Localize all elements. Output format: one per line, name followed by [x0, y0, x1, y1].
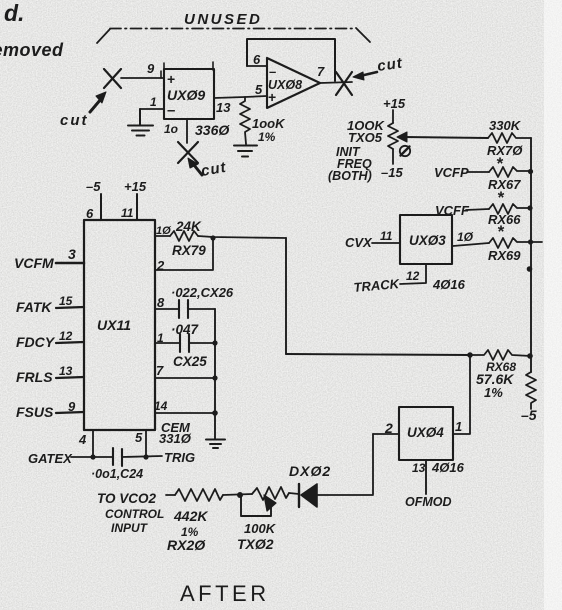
- wire FRLS input: [56, 377, 84, 378]
- capacitor C24 .001: [113, 448, 122, 466]
- node 442K/TX02 wiper: [237, 492, 243, 498]
- wire UX09 output pin 13 to UX08 pin 5: [214, 96, 267, 98]
- svg-text:TO VCO2: TO VCO2: [97, 491, 157, 506]
- svg-text:331Ø: 331Ø: [159, 431, 192, 446]
- svg-text:OFMOD: OFMOD: [405, 495, 452, 509]
- svg-text:VCFM: VCFM: [14, 255, 54, 271]
- node RX67/bus: [528, 169, 533, 174]
- svg-text:–5: –5: [86, 179, 101, 194]
- wire to UX09 pin 9: [121, 77, 164, 79]
- wire UX11 pin 10 to 24K: [155, 235, 170, 237]
- wire TX02 to diode: [289, 493, 299, 494]
- svg-text:4Ø16: 4Ø16: [431, 460, 465, 475]
- resistor RX66: [489, 204, 531, 214]
- resistor 24K RX79: [170, 231, 198, 241]
- TX05 wiper arrow: [397, 132, 488, 142]
- resistor RX67: [489, 167, 531, 177]
- trimmer TX05 100K: [388, 123, 398, 149]
- wire UX11 pin 14: [155, 412, 215, 414]
- svg-text:1o: 1o: [164, 122, 178, 136]
- svg-text:UNUSED: UNUSED: [184, 11, 262, 28]
- wire route 24K node down: [285, 238, 287, 354]
- wire FATK input: [56, 307, 84, 308]
- right white margin strip: [544, 0, 562, 610]
- wire C24 to TRIG: [122, 456, 162, 457]
- node pin5/TRIG: [143, 454, 148, 459]
- svg-text:2: 2: [156, 258, 165, 273]
- svg-text:FSUS: FSUS: [16, 404, 54, 420]
- wire UX08 output pin 7: [320, 82, 352, 83]
- svg-text:FRLS: FRLS: [16, 369, 53, 385]
- diode DX02: [299, 484, 317, 507]
- svg-text:9: 9: [147, 61, 155, 76]
- wire UX04 pin 2: [373, 433, 399, 435]
- svg-text:cut: cut: [376, 55, 404, 75]
- resistor on bus to -5: [526, 372, 536, 409]
- svg-text:CONTROL: CONTROL: [105, 507, 164, 521]
- svg-text:1%: 1%: [258, 130, 276, 144]
- vertical wire caps to ground: [214, 309, 216, 439]
- node RX69/bus: [528, 239, 533, 244]
- node 24K/pin2 junction: [210, 235, 215, 240]
- svg-text:RX7Ø: RX7Ø: [487, 143, 523, 158]
- svg-text:RX2Ø: RX2Ø: [167, 537, 206, 553]
- svg-text:1Ø: 1Ø: [156, 225, 171, 237]
- svg-text:d.: d.: [4, 0, 24, 26]
- svg-text:VCFF: VCFF: [435, 203, 470, 218]
- svg-text:UX11: UX11: [97, 317, 131, 333]
- svg-text:UXØ9: UXØ9: [167, 87, 205, 103]
- UX11 pin 11 stub (+15): [136, 194, 138, 220]
- svg-text:5: 5: [255, 82, 263, 97]
- wire UX04 pin 2 down to diode row: [372, 434, 374, 494]
- ground below 100K resistor: [234, 146, 257, 157]
- wire UX11 pin 8 to CX26: [155, 308, 179, 310]
- wire FSUS input: [56, 412, 84, 413]
- wire UX03 pin 10 to RX69: [453, 243, 489, 246]
- TX02 wiper arrow and return wire: [241, 495, 276, 516]
- svg-text:AFTER: AFTER: [180, 581, 270, 606]
- svg-text:12: 12: [59, 329, 73, 343]
- unused-section bracket: [97, 28, 370, 43]
- svg-text:cut: cut: [60, 112, 89, 129]
- svg-text:9: 9: [68, 399, 76, 414]
- svg-text:RX79: RX79: [172, 243, 206, 258]
- svg-text:removed: removed: [0, 40, 64, 60]
- IC UX03 box: [400, 215, 452, 264]
- node on bus below RX69: [527, 266, 533, 272]
- svg-text:–: –: [269, 64, 276, 79]
- resistor RX69: [489, 238, 542, 248]
- UX04 pin 13 stub: [425, 460, 427, 494]
- TX05 screw adjust symbol: [400, 146, 410, 156]
- wire UX11 pin 2 loop: [155, 238, 213, 270]
- svg-text:4Ø16: 4Ø16: [432, 277, 466, 292]
- svg-text:442K: 442K: [173, 508, 208, 524]
- wire FDCY input: [56, 342, 84, 343]
- op-amp UX08 triangle: [267, 58, 320, 108]
- svg-text:12: 12: [406, 269, 420, 283]
- svg-text:UXØ4: UXØ4: [407, 425, 444, 440]
- svg-text:·022,CX26: ·022,CX26: [171, 285, 234, 300]
- svg-text:1Ø: 1Ø: [457, 230, 474, 244]
- cut X mark at UX09 pin 10: [178, 142, 198, 163]
- ground below caps column: [206, 440, 225, 449]
- svg-text:TRIG: TRIG: [164, 450, 195, 465]
- svg-text:CVX: CVX: [345, 235, 373, 250]
- svg-text:1ooK: 1ooK: [252, 116, 286, 131]
- resistor 442K RX20: [175, 489, 223, 501]
- svg-text:7: 7: [317, 64, 325, 79]
- svg-text:8: 8: [157, 295, 165, 310]
- UX08 feedback wire: [247, 39, 335, 81]
- svg-text:7: 7: [156, 363, 164, 378]
- wire UX11 pin 1 to CX25: [155, 342, 180, 344]
- svg-text:RX67: RX67: [488, 177, 521, 192]
- svg-text:4: 4: [78, 432, 87, 447]
- svg-text:INPUT: INPUT: [111, 521, 149, 535]
- svg-text:336Ø: 336Ø: [195, 122, 230, 138]
- svg-text:DXØ2: DXØ2: [289, 463, 331, 479]
- svg-text:RX69: RX69: [488, 248, 521, 263]
- svg-text:100K: 100K: [244, 521, 277, 536]
- svg-text:11: 11: [380, 229, 393, 243]
- wire 442K to TX02: [223, 494, 252, 495]
- svg-text:5: 5: [135, 430, 143, 445]
- svg-text:TXO5: TXO5: [348, 130, 383, 145]
- wire VCFF to RX66: [466, 209, 489, 210]
- svg-text:+15: +15: [124, 179, 147, 194]
- svg-text:6: 6: [86, 206, 94, 221]
- wire TX05 to -15: [392, 149, 394, 164]
- svg-text:–5: –5: [521, 407, 537, 423]
- wire CX26 to vertical: [188, 308, 215, 310]
- UX11 pin 6 stub (-5): [100, 194, 102, 220]
- wire node down to UX04 pin 1: [453, 355, 470, 434]
- cut X mark at UX09 pin 9 input: [104, 69, 121, 88]
- cut arrow (upper left): [90, 92, 106, 112]
- wire 24K output to route corner: [198, 236, 286, 238]
- svg-text:RX66: RX66: [488, 212, 521, 227]
- svg-text:UXØ8: UXØ8: [268, 78, 302, 92]
- wire diode to UX04 pin 2 vertical: [317, 494, 373, 496]
- svg-text:+15: +15: [383, 96, 406, 111]
- right bus vertical wire: [530, 138, 532, 372]
- svg-text:24K: 24K: [175, 219, 202, 234]
- cut arrow (below UX09): [188, 158, 202, 175]
- wire CX25 to vertical: [189, 342, 215, 344]
- resistor 330K / RX70: [488, 133, 531, 143]
- cut X mark at UX08 output: [336, 72, 352, 95]
- svg-text:UXØ3: UXØ3: [409, 233, 446, 248]
- cut arrow (right of UX08): [353, 72, 377, 80]
- IC UX04 box: [399, 407, 453, 460]
- node CX25/vertical: [212, 340, 217, 345]
- wire VCFM input: [56, 262, 84, 265]
- svg-text:1: 1: [157, 331, 164, 345]
- svg-text:–: –: [167, 102, 175, 119]
- wire route to RX68: [286, 354, 470, 355]
- svg-text:1: 1: [150, 95, 157, 109]
- node pin4/GATEX: [90, 454, 95, 459]
- trimmer TX02 100K: [252, 487, 289, 500]
- resistor RX68 57.6K: [470, 350, 531, 360]
- op-amp UX09 box: [164, 69, 214, 119]
- svg-text:+: +: [167, 71, 175, 87]
- svg-text:1: 1: [455, 419, 462, 434]
- svg-text:·0o1,C24: ·0o1,C24: [91, 467, 143, 481]
- svg-text:CX25: CX25: [173, 354, 207, 369]
- svg-text:3: 3: [68, 246, 76, 262]
- wire UX08 pin 6: [247, 65, 267, 67]
- wire UX11 pin 7: [155, 377, 215, 379]
- svg-text:11: 11: [121, 206, 134, 220]
- svg-text:6: 6: [253, 52, 261, 67]
- wire tick above UX09 corners: [163, 63, 165, 70]
- wire +15 to trimmer TX05: [392, 110, 394, 123]
- node pin7/vertical: [212, 375, 217, 380]
- svg-text:13: 13: [59, 364, 73, 378]
- UX11 pin 4 stub: [92, 430, 94, 457]
- wire UX09 pin 1: [140, 108, 164, 110]
- svg-text:FDCY: FDCY: [16, 334, 56, 350]
- node RX66/bus: [527, 205, 532, 210]
- wire TO VCO2 input: [166, 494, 175, 496]
- svg-text:FATK: FATK: [16, 299, 52, 315]
- svg-text:14: 14: [154, 399, 168, 413]
- svg-text:TXØ2: TXØ2: [237, 536, 274, 552]
- UX11 pin 5 stub: [145, 430, 147, 457]
- UX09 pin 10 stub: [186, 119, 188, 143]
- svg-text:1%: 1%: [484, 385, 503, 400]
- wire VCFP to RX67: [467, 171, 489, 173]
- UX03 pin 12 stub to TRACK: [400, 264, 426, 284]
- node RX68/bus: [527, 353, 533, 359]
- wire GATEX to C24: [71, 456, 113, 458]
- wire CVX to UX03 pin 11: [372, 242, 400, 244]
- IC UX11 box: [84, 220, 155, 430]
- ground at UX09 pin 1: [128, 109, 153, 136]
- node pin14/vertical: [212, 410, 218, 416]
- svg-text:GATEX: GATEX: [28, 451, 73, 466]
- resistor 100K 1% (to ground at UX08 input): [240, 97, 250, 144]
- svg-text:13: 13: [412, 461, 426, 475]
- svg-text:13: 13: [216, 100, 231, 115]
- svg-text:2: 2: [384, 420, 393, 436]
- capacitor CX26 .022: [179, 300, 188, 318]
- capacitor CX25 .047: [180, 334, 189, 352]
- svg-text:–15: –15: [381, 165, 403, 180]
- svg-text:15: 15: [59, 294, 73, 308]
- svg-text:VCFP: VCFP: [434, 165, 469, 180]
- svg-text:·047: ·047: [171, 322, 200, 337]
- node route/RX68/UX04: [467, 352, 473, 358]
- svg-text:330K: 330K: [489, 118, 522, 133]
- svg-text:(BOTH): (BOTH): [328, 169, 372, 183]
